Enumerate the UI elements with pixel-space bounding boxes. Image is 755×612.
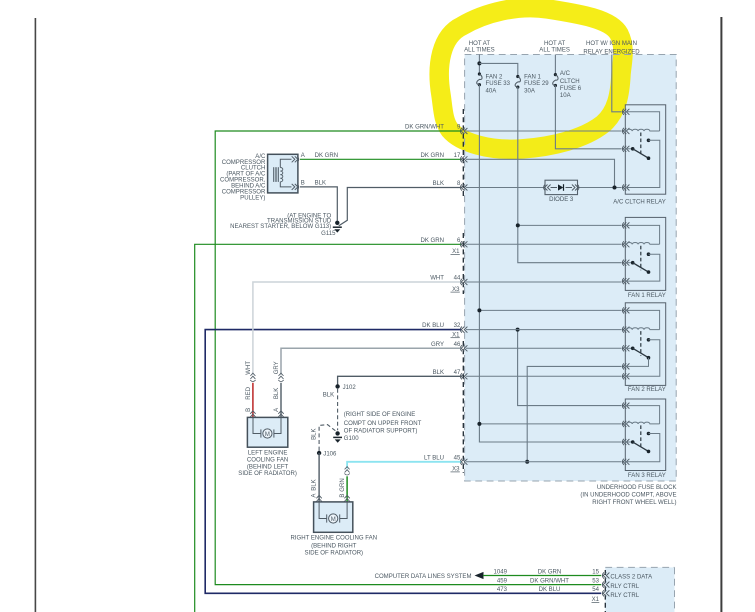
svg-text:FUSE 6: FUSE 6 [560,86,582,92]
svg-text:GRY: GRY [431,342,444,348]
wire dashed J102 to G100 [337,389,339,430]
wire class 2 data dk grn 1049 [475,572,602,579]
svg-text:1049: 1049 [494,569,508,575]
svg-text:B: B [246,408,252,412]
wire blk clutch ground [300,187,337,221]
svg-text:30A: 30A [524,89,536,95]
svg-text:FAN 3 RELAY: FAN 3 RELAY [628,473,666,479]
wire blk 8 row to diode [466,187,622,189]
diode DIODE 3 [544,180,580,203]
svg-text:HOT W/ IGN MAIN: HOT W/ IGN MAIN [586,41,637,47]
motor left engine cooling fan [247,417,287,447]
label a/c compressor clutch [220,154,266,202]
wire gry 46 to left fan [281,348,461,374]
wire tap to fan 2 relay pin1 [477,308,621,312]
connector chevrons at right fan pins [316,495,349,501]
node fuse block pin 47 (BLK) [433,370,622,380]
node fuse block pin 17 (DK GRN) [420,153,467,163]
relay FAN 3 RELAY [622,399,665,471]
svg-text:DIODE 3: DIODE 3 [549,197,574,203]
node pcm pin 54 [602,590,609,596]
wire dk blu node down to fan 3 relay pin1 [516,328,622,406]
svg-text:DK BLU: DK BLU [539,587,561,593]
svg-text:(IN UNDERHOOD COMPT, ABOVE: (IN UNDERHOOD COMPT, ABOVE [580,492,676,498]
relay FAN 2 RELAY [622,303,665,386]
node fuse block pin 6 (DK GRN) [420,238,621,255]
label wire A DK GRN [301,153,338,159]
svg-text:G100: G100 [344,436,359,442]
page edge line right [720,17,722,612]
svg-text:A/C CLTCH RELAY: A/C CLTCH RELAY [613,199,666,205]
svg-text:DK GRN: DK GRN [315,153,339,159]
svg-text:FAN 2 RELAY: FAN 2 RELAY [628,387,666,393]
svg-text:PULLEY): PULLEY) [240,196,265,202]
svg-text:COMPUTER DATA LINES SYSTEM: COMPUTER DATA LINES SYSTEM [375,574,472,580]
label HOT W/ IGN MAIN RELAY ENERGIZED [583,41,640,55]
wire dk grn clutch feed [300,158,461,160]
ground G100 [333,431,359,443]
page edge line left [34,18,36,612]
label wire B BLK [301,181,326,187]
svg-text:BLK: BLK [312,479,318,490]
svg-text:LEFT ENGINE: LEFT ENGINE [248,450,288,456]
label pcm CLASS 2 DATA / RLY CTRL [610,574,653,599]
svg-text:J106: J106 [323,451,337,457]
fuse A/C CLTCH FUSE 6 10A [553,71,582,99]
node fuse block pin 44 (WHT) [430,276,621,293]
wire dk grn/wht 459 pcm loop [215,131,601,585]
node fuse block pin 8 (BLK) [433,181,468,190]
svg-text:DK GRN: DK GRN [420,153,444,159]
svg-text:G115: G115 [321,231,336,237]
svg-text:ALL TIMES: ALL TIMES [539,48,570,54]
svg-text:BLK: BLK [433,370,444,376]
label circuit 459 DK GRN/WHT 53 [497,578,600,584]
label COMPUTER DATA LINES SYSTEM [375,574,472,580]
label circuit 1049 DK GRN 15 [494,569,600,575]
label wire GRY BLK A [274,361,280,412]
svg-text:53: 53 [592,578,599,584]
connector inline lt blu/grn [344,467,349,475]
svg-text:UNDERHOOD FUSE BLOCK: UNDERHOOD FUSE BLOCK [597,485,677,491]
svg-text:CLTCH: CLTCH [560,79,580,85]
connector inline wht/red [250,373,255,381]
svg-text:RIGHT ENGINE COOLING FAN: RIGHT ENGINE COOLING FAN [291,536,378,542]
svg-text:DK BLU: DK BLU [422,323,444,329]
wire ign main relay feed to a/c relay pin 1 [612,55,622,112]
svg-text:(BEHIND LEFT: (BEHIND LEFT [247,464,289,470]
svg-text:HOT AT: HOT AT [469,41,491,47]
svg-text:40A: 40A [486,89,498,95]
svg-text:DK GRN/WHT: DK GRN/WHT [530,578,569,584]
a/c compressor clutch [268,154,299,193]
node pcm pin 15 [602,572,609,578]
svg-text:46: 46 [454,342,461,348]
svg-text:GRN: GRN [340,478,346,491]
wire fan 1 fuse output vertical [518,87,622,263]
svg-text:32: 32 [454,323,461,329]
label G100 location [344,412,422,434]
node feed junction [477,61,481,65]
wire lt blu 45 to right fan [347,462,461,469]
connector dashed segments on fuse block left edge [462,109,464,473]
node fuse block pin 46 (GRY) [431,342,622,352]
label wire WHT RED B [246,361,252,412]
svg-text:WHT: WHT [430,276,444,282]
svg-text:FUSE 29: FUSE 29 [524,81,549,87]
node fan1 fuse to fan1 relay pin1 [516,223,622,227]
svg-text:45: 45 [454,455,461,461]
wire tap to fan 3 relay coil [477,422,621,426]
wire dk grn 17 jog to diode node [466,159,615,187]
label HOT AT ALL TIMES (fan 2 fuse) [464,41,495,53]
node diode / clutch feed junction [613,186,617,190]
wire B+ feed to fan 2 fuse [478,55,480,74]
svg-text:BLK: BLK [323,392,334,398]
svg-text:NEAREST STARTER, BELOW G113): NEAREST STARTER, BELOW G113) [230,224,331,230]
node fuse block pin 9 (DK GRN/WHT) [405,125,621,135]
node pcm pin 53 [602,582,609,588]
label FAN 2 RELAY [628,387,666,393]
svg-text:FUSE 33: FUSE 33 [486,81,511,87]
svg-text:ALL TIMES: ALL TIMES [464,48,495,54]
svg-text:10A: 10A [560,93,572,99]
node fuse block pin 45 (LT BLU) [424,455,621,472]
svg-text:B: B [301,181,305,187]
svg-text:473: 473 [497,587,508,593]
wire dk grn 6 to pcm [195,244,461,612]
underhood fuse block dashed border [465,55,677,482]
relay A/C CLTCH RELAY [622,105,665,194]
svg-text:44: 44 [454,276,461,282]
wire fan 2 relay pin4 down to lt blu node [525,366,621,463]
svg-text:BLK: BLK [312,428,318,439]
svg-text:15: 15 [592,569,599,575]
svg-text:(BEHIND RIGHT: (BEHIND RIGHT [311,544,357,550]
svg-text:A/C: A/C [560,71,571,77]
svg-text:GRY: GRY [274,361,280,374]
label A/C CLTCH RELAY [613,199,666,205]
svg-text:459: 459 [497,578,508,584]
underhood fuse block box fill [465,55,677,482]
svg-text:DK GRN: DK GRN [420,238,444,244]
relay FAN 1 RELAY [622,217,665,290]
label X1 pcm connector [592,597,600,603]
label RIGHT ENGINE COOLING FAN [291,536,378,557]
label LEFT ENGINE COOLING FAN [238,450,297,477]
svg-text:RLY CTRL: RLY CTRL [610,593,639,599]
svg-text:J102: J102 [343,385,357,391]
svg-text:FAN 1 RELAY: FAN 1 RELAY [628,293,666,299]
svg-text:SIDE OF RADIATOR): SIDE OF RADIATOR) [238,471,297,477]
PCM box fill [605,567,674,612]
node fuse block pin 32 (DK BLU) [422,323,621,338]
wire dashed J106 to G100 [312,425,338,451]
svg-text:CLASS 2 DATA: CLASS 2 DATA [610,574,653,580]
connector inline gry/blk [278,373,283,381]
ground G115 [230,213,342,237]
PCM box dashed border [605,567,674,612]
wire fan 2 fuse output vertical [479,85,621,442]
svg-text:BLK: BLK [315,181,326,187]
fuse FAN 2 FUSE 33 40A [477,72,511,94]
svg-text:RED: RED [246,386,252,399]
svg-text:BLK: BLK [433,181,444,187]
yellow highlighter circle annotation [439,8,623,150]
svg-text:RLY CTRL: RLY CTRL [610,584,639,590]
label wire GRN B [340,478,346,497]
svg-text:47: 47 [454,370,461,376]
svg-text:(RIGHT SIDE OF ENGINE: (RIGHT SIDE OF ENGINE [344,412,415,418]
svg-text:HOT AT: HOT AT [544,41,566,47]
label FAN 3 RELAY [628,473,666,479]
svg-text:BLK: BLK [274,388,280,399]
label FAN 1 RELAY [628,293,666,299]
svg-text:M: M [265,432,270,438]
wire blk right fan pin A from J106 [318,453,320,502]
wire B+ feed to a/c clutch fuse [554,55,556,75]
wire blk 47 to J102 [338,376,461,386]
svg-text:FAN 2: FAN 2 [486,74,503,80]
label circuit 473 DK BLU 54 [497,587,600,593]
svg-text:54: 54 [592,587,599,593]
svg-text:17: 17 [454,153,461,159]
node J106 [317,451,337,458]
motor right engine cooling fan [314,502,353,532]
connector chevrons at left fan pins [250,411,284,417]
fuse FAN 1 FUSE 29 30A [515,74,549,94]
label HOT AT ALL TIMES (a/c fuse) [539,41,570,53]
svg-text:DK GRN/WHT: DK GRN/WHT [405,125,444,131]
svg-text:RIGHT FRONT WHEEL WELL): RIGHT FRONT WHEEL WELL) [592,500,676,506]
svg-text:LT BLU: LT BLU [424,455,444,461]
wire red to left fan pin B [252,383,254,418]
label UNDERHOOD FUSE BLOCK location [580,485,676,506]
wire blk to left fan pin A [280,383,282,418]
svg-text:DK GRN: DK GRN [538,569,562,575]
svg-text:M: M [331,517,336,523]
svg-text:FAN 1: FAN 1 [524,74,541,80]
svg-text:COOLING FAN: COOLING FAN [247,458,288,464]
wire dk blu 473 to pcm [205,330,601,594]
wire blk 8 from fuse block to ground [339,188,461,226]
node J102 [323,384,357,398]
svg-text:COMPT ON UPPER FRONT: COMPT ON UPPER FRONT [344,421,422,427]
label wire BLK A [312,479,318,497]
wire grn to right fan pin B [346,476,348,502]
wire a/c fuse output to a/c relay common [555,86,621,149]
wire wht 44 to left fan [253,282,461,375]
wire branch to fan 1 fuse [479,63,517,76]
svg-text:WHT: WHT [246,361,252,375]
svg-text:OF RADIATOR SUPPORT): OF RADIATOR SUPPORT) [344,429,418,435]
svg-text:SIDE OF RADIATOR): SIDE OF RADIATOR) [305,551,364,557]
